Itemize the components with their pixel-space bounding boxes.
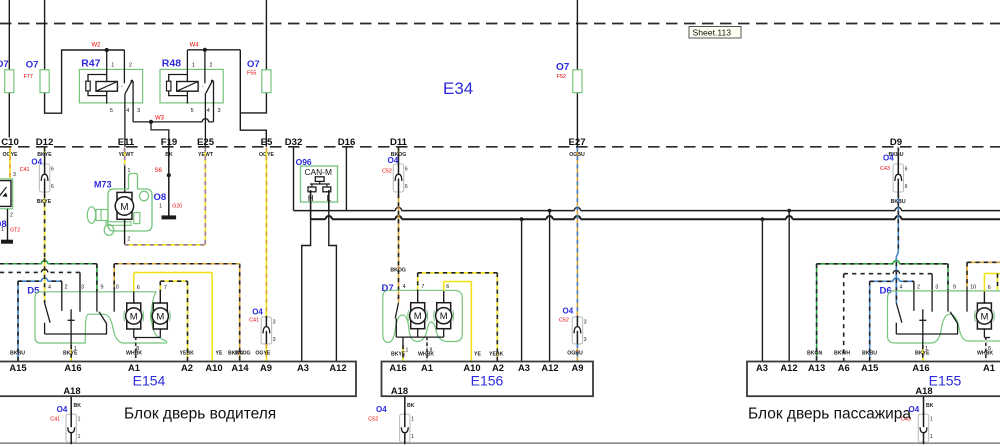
svg-text:A9: A9 — [260, 362, 272, 373]
svg-text:3: 3 — [13, 172, 16, 178]
svg-text:BKOG: BKOG — [390, 268, 406, 274]
svg-text:1: 1 — [406, 348, 409, 354]
wire motor common to E155 A1 — [983, 328, 985, 337]
svg-text:WHBK: WHBK — [126, 351, 142, 357]
svg-text:O4: O4 — [376, 405, 387, 414]
wire D16 down to CAN low bus — [345, 148, 347, 211]
svg-text:O4: O4 — [563, 307, 574, 316]
svg-text:2: 2 — [129, 63, 132, 69]
wire YEBK E156 A2 to D7 pin 7 — [496, 273, 498, 362]
svg-text:A3: A3 — [756, 362, 768, 373]
inline connector O4 C52 on D11 wire — [398, 148, 400, 154]
svg-text:BK: BK — [74, 403, 82, 409]
svg-text:E156: E156 — [471, 373, 504, 389]
wire supply through fuse F55 — [265, 0, 267, 70]
splice S6 — [167, 173, 171, 177]
svg-text:D11: D11 — [390, 137, 408, 148]
svg-text:D5: D5 — [27, 286, 40, 297]
svg-text:6: 6 — [905, 167, 908, 173]
svg-text:WHBK: WHBK — [977, 351, 993, 357]
svg-text:E11: E11 — [118, 137, 135, 148]
D7 switch bar to A16 — [396, 336, 418, 338]
ground GT2 — [2, 240, 13, 243]
svg-text:S6: S6 — [155, 168, 163, 174]
svg-text:O4: O4 — [57, 405, 68, 414]
wire M73 pin2 down — [124, 219, 126, 244]
svg-text:C10: C10 — [1, 137, 19, 148]
motor D5 pin6 window motor — [127, 303, 141, 329]
svg-text:A1: A1 — [421, 362, 433, 373]
motor M73 green housing — [108, 174, 152, 232]
svg-text:A2: A2 — [492, 362, 504, 373]
wire supply through fuse F77 to node W2 — [44, 0, 46, 70]
ground G20 — [162, 216, 176, 219]
svg-text:3: 3 — [81, 284, 84, 290]
svg-text:C52: C52 — [368, 417, 378, 423]
svg-text:BKBU: BKBU — [862, 351, 877, 357]
svg-text:7: 7 — [421, 284, 424, 290]
svg-text:O4: O4 — [252, 307, 263, 316]
svg-text:F55: F55 — [247, 71, 256, 77]
wire A18 down with inline connector O4 C52 — [404, 396, 406, 414]
svg-text:GT2: GT2 — [10, 228, 20, 234]
svg-text:F52: F52 — [557, 74, 566, 80]
wire BKGN from left edge to D5 pin 9 — [0, 263, 97, 265]
fuse O7 F55 — [262, 70, 271, 93]
wire relay R48 pin 4 to E25 with hop — [204, 94, 206, 147]
sheet bottom border — [0, 442, 1000, 444]
wire BKBU from E154 A15 to D5 pin 2 — [17, 281, 19, 361]
svg-text:A10: A10 — [463, 362, 480, 373]
svg-text:M: M — [980, 311, 988, 322]
wire BKYE D12 to D5 pin 4 with arrows — [44, 261, 46, 287]
svg-text:3: 3 — [218, 108, 221, 114]
wire YE E156 A10 to D7 pin 6 — [470, 282, 472, 362]
svg-text:YE: YE — [216, 351, 223, 357]
svg-text:1: 1 — [111, 63, 114, 69]
svg-text:CAN-M: CAN-M — [305, 167, 332, 177]
svg-text:O4: O4 — [883, 154, 894, 163]
relay R48 switch arm — [206, 81, 213, 94]
svg-text:A12: A12 — [541, 362, 558, 373]
inline connector O4 C43 on D9 wire — [897, 148, 899, 154]
svg-text:A3: A3 — [297, 362, 309, 373]
wire net W3 pin3 R47 to pin3 R48 — [133, 121, 213, 123]
node W4 junction — [203, 48, 207, 52]
svg-text:BK: BK — [407, 403, 415, 409]
svg-text:O4: O4 — [31, 158, 42, 167]
block E155 connector box — [747, 362, 1000, 397]
svg-text:BKOG: BKOG — [228, 351, 244, 357]
module O96 CAN-M — [301, 166, 338, 202]
svg-text:D6: D6 — [880, 286, 892, 297]
switch unit green outline D7 — [383, 290, 463, 342]
svg-text:1: 1 — [930, 434, 933, 440]
wire W3 branch to F19 — [151, 122, 169, 147]
svg-text:1: 1 — [411, 417, 414, 423]
svg-text:4: 4 — [900, 284, 903, 290]
svg-text:G20: G20 — [172, 203, 182, 209]
svg-text:6: 6 — [405, 184, 408, 190]
svg-text:1: 1 — [159, 203, 162, 209]
svg-text:OGYE: OGYE — [255, 351, 271, 357]
wire YE to D6 pin 6 from right — [984, 273, 1000, 275]
svg-text:C52: C52 — [382, 168, 392, 174]
svg-text:O8: O8 — [154, 192, 167, 203]
svg-text:2: 2 — [65, 284, 68, 290]
wire E155 A12 to L bus — [788, 211, 790, 362]
svg-text:A16: A16 — [912, 362, 929, 373]
svg-text:YEWT: YEWT — [119, 152, 135, 158]
relay R47 pin 1 coil wire — [106, 50, 108, 82]
svg-text:2: 2 — [917, 284, 920, 290]
svg-text:A18: A18 — [391, 385, 408, 396]
node W2 junction — [105, 48, 109, 52]
inline connector O4 C41 on E5 wire — [261, 317, 271, 344]
inline connector O4 C41 on D12 wire — [44, 148, 46, 154]
D5 switch pack contacts — [45, 303, 51, 323]
svg-text:6: 6 — [905, 184, 908, 190]
svg-text:BKYE: BKYE — [63, 351, 78, 357]
switch component at C10 (cut by edge) — [0, 179, 13, 209]
svg-text:O7: O7 — [247, 59, 260, 70]
svg-text:A18: A18 — [63, 385, 80, 396]
wire C10 OGYE down to switch — [9, 148, 11, 180]
svg-text:A15: A15 — [861, 362, 878, 373]
switch unit green outline driver — [35, 292, 167, 343]
svg-text:D9: D9 — [890, 137, 902, 148]
svg-text:D32: D32 — [285, 137, 303, 148]
wire BKBU E155 A15 to D6 pin 2 — [869, 281, 871, 361]
relay R47 green enclosure — [79, 69, 142, 103]
svg-text:Блок дверь пассажира: Блок дверь пассажира — [748, 406, 911, 423]
wire supply to C10 — [8, 0, 10, 70]
svg-text:1: 1 — [192, 63, 195, 69]
svg-text:BKWH: BKWH — [834, 351, 850, 357]
svg-text:C41: C41 — [249, 318, 259, 324]
svg-text:W4: W4 — [190, 42, 200, 48]
CAN upper bus line (L) — [294, 210, 1000, 212]
wire YEBK E154 A2 to D5 pin 7 — [187, 281, 189, 361]
svg-text:Sheet.113: Sheet.113 — [693, 28, 732, 38]
svg-text:A10: A10 — [205, 362, 222, 373]
wire E156 A3 to H bus — [521, 219, 523, 361]
svg-text:W3: W3 — [155, 116, 165, 122]
wire YEWT E11 to motor M73 — [124, 148, 126, 167]
svg-text:BKGN: BKGN — [807, 351, 823, 357]
svg-text:10: 10 — [970, 284, 976, 290]
svg-text:Блок дверь водителя: Блок дверь водителя — [124, 406, 276, 423]
D5 switch 9/10 contacts — [96, 291, 98, 312]
svg-text:1: 1 — [930, 417, 933, 423]
wire BKOG D11 down to D7 pin 4 — [395, 209, 401, 212]
wire D32 down to CAN low bus — [293, 148, 295, 211]
svg-text:A18: A18 — [915, 385, 932, 396]
svg-text:D12: D12 — [36, 137, 54, 148]
svg-text:O7: O7 — [556, 62, 570, 73]
wire CAN L pin down — [328, 190, 330, 211]
svg-text:C43: C43 — [880, 166, 890, 172]
wire YEBK stub right edge — [997, 274, 999, 291]
svg-text:OGBU: OGBU — [567, 351, 583, 357]
CAN lower bus line (H) with hops — [311, 218, 326, 220]
svg-text:6: 6 — [988, 285, 991, 291]
svg-text:9: 9 — [101, 284, 104, 290]
connector row dashed line — [0, 146, 1000, 148]
wire to ground GT2 — [7, 209, 9, 240]
wire E156 A12 to L bus — [549, 211, 551, 362]
svg-text:3: 3 — [137, 108, 140, 114]
svg-text:W2: W2 — [92, 43, 102, 49]
svg-text:A1: A1 — [128, 362, 140, 373]
D6 switch 9/10 contacts — [947, 291, 949, 312]
Sheet.113 reference box — [689, 27, 741, 39]
wire A18 down with inline connector O4 C43 — [923, 396, 925, 414]
svg-text:2: 2 — [10, 213, 13, 219]
svg-text:M73: M73 — [94, 180, 112, 190]
motor D6 pin6 window motor — [977, 303, 991, 329]
wire CAN H pin down — [310, 190, 312, 219]
svg-text:7: 7 — [164, 285, 167, 291]
svg-text:C41: C41 — [20, 167, 30, 173]
wire OGBU E27 down with bus hops — [574, 209, 580, 212]
svg-text:A2: A2 — [181, 362, 193, 373]
svg-text:2: 2 — [209, 63, 212, 69]
svg-text:A9: A9 — [572, 362, 584, 373]
wire BKWH from left edge to D5 pin 3 — [0, 271, 80, 273]
relay R47 pin 3 wire — [132, 81, 134, 122]
relay R48 pin 3 wire — [213, 81, 215, 122]
svg-text:M: M — [414, 311, 422, 322]
svg-text:3: 3 — [273, 319, 276, 325]
svg-text:M: M — [156, 311, 164, 322]
D6 switch pack contacts — [896, 303, 902, 323]
relay R48 green enclosure — [160, 69, 223, 103]
wire E155 A3 to H bus — [761, 219, 763, 361]
D5 switch centre contact — [70, 309, 72, 334]
svg-text:3: 3 — [584, 337, 587, 343]
svg-text:5: 5 — [110, 108, 113, 114]
svg-text:3: 3 — [935, 284, 938, 290]
wire BKOG from E154 A14 to D5 pin 10 — [239, 264, 241, 362]
svg-text:A3: A3 — [518, 362, 530, 373]
svg-text:1: 1 — [78, 417, 81, 423]
D7 switch contact — [395, 303, 398, 319]
svg-text:C41: C41 — [50, 417, 60, 423]
wire BKGN E155 A13 to D6 pin 9 — [816, 264, 818, 362]
svg-text:YEBK: YEBK — [489, 352, 504, 358]
svg-text:A16: A16 — [389, 362, 406, 373]
relay R47 switch arm — [125, 81, 132, 94]
D5 switch common bar — [45, 333, 107, 335]
svg-text:O7: O7 — [0, 59, 9, 70]
wire relay R47 pin 4 to E11 — [124, 94, 126, 147]
svg-text:R48: R48 — [162, 57, 181, 69]
svg-text:R47: R47 — [81, 57, 100, 69]
motor D7 pin6 — [437, 303, 451, 329]
svg-text:6: 6 — [446, 284, 449, 290]
motor D7 pin7 — [411, 303, 425, 329]
wire BKWH E155 A6 to D6 pin 3 — [843, 274, 845, 362]
svg-text:5: 5 — [191, 108, 194, 114]
wire motors common to E156 A1 — [417, 328, 419, 337]
svg-text:BKBU: BKBU — [10, 351, 25, 357]
svg-text:BK: BK — [926, 403, 934, 409]
relay R47 coil — [96, 82, 117, 92]
node W3 junction — [149, 120, 153, 124]
svg-text:6: 6 — [51, 184, 54, 190]
wire node W4 horizontal — [187, 49, 240, 51]
D6 switch centre contact — [922, 309, 924, 334]
svg-text:E154: E154 — [133, 373, 166, 389]
svg-text:3: 3 — [273, 337, 276, 343]
svg-text:4: 4 — [48, 284, 51, 290]
svg-text:YEBK: YEBK — [180, 351, 195, 357]
fuse O7 F77 — [40, 70, 49, 93]
wire BKYE D6 pin1 to E155 A16 — [922, 334, 924, 345]
wire supply through fuse F52 to E27 — [576, 0, 578, 70]
motor D5 pin7 window motor — [153, 303, 167, 329]
relay R48 coil — [177, 82, 198, 92]
relay R48 pin 1 coil wire — [186, 50, 188, 82]
svg-text:C52: C52 — [559, 318, 569, 324]
svg-text:4: 4 — [126, 108, 129, 114]
fuse O7 F52 — [573, 70, 582, 93]
svg-text:A15: A15 — [9, 362, 26, 373]
svg-text:A12: A12 — [780, 362, 797, 373]
inline connector O4 C52 on E27 wire — [572, 317, 582, 344]
svg-text:1: 1 — [78, 434, 81, 440]
svg-text:A12: A12 — [329, 362, 346, 373]
svg-text:M: M — [440, 311, 448, 322]
D6 switch common bar — [896, 333, 958, 335]
svg-text:E34: E34 — [443, 79, 473, 98]
switch unit green outline D6 — [888, 291, 1000, 343]
svg-text:A13: A13 — [808, 362, 825, 373]
svg-text:BKYE: BKYE — [37, 199, 52, 205]
svg-text:6: 6 — [51, 167, 54, 173]
relay R47 coil resistor branch — [88, 75, 107, 82]
relay R47 pin 2 wire and fixed contact — [123, 50, 125, 83]
svg-text:A16: A16 — [64, 362, 81, 373]
wire W4 down joins F55, to E5 — [240, 50, 266, 147]
wire YEWT M73 to E25 — [125, 244, 206, 246]
svg-text:4: 4 — [403, 284, 406, 290]
wire A18 down with inline connector O4 C41 — [70, 396, 72, 414]
svg-text:D16: D16 — [338, 137, 356, 148]
wire CAN pair to E154 A12 — [329, 211, 337, 362]
block E154 connector box — [0, 362, 356, 397]
svg-text:BKYE: BKYE — [915, 351, 930, 357]
svg-text:O7: O7 — [26, 60, 39, 71]
svg-text:O8: O8 — [0, 219, 7, 230]
svg-text:M: M — [130, 311, 138, 322]
svg-text:O4: O4 — [388, 156, 399, 165]
svg-text:F77: F77 — [24, 74, 33, 80]
svg-text:A6: A6 — [838, 362, 850, 373]
wire BKYE D5 pin1 to E154 A16 — [70, 334, 72, 345]
block E156 connector box — [382, 362, 594, 397]
relay R48 pin 2 wire and fixed contact — [204, 50, 206, 83]
svg-text:O96: O96 — [296, 157, 312, 167]
svg-text:6: 6 — [137, 285, 140, 291]
wire CAN pair to E154 A3 — [302, 219, 311, 361]
relay R47 mechanical link — [117, 85, 123, 87]
svg-text:YE: YE — [474, 352, 481, 358]
svg-text:1: 1 — [411, 434, 414, 440]
sheet boundary dashed line top — [0, 23, 1000, 25]
relay R48 coil resistor branch — [169, 75, 188, 82]
svg-text:A1: A1 — [983, 362, 995, 373]
svg-text:3: 3 — [584, 319, 587, 325]
svg-text:6: 6 — [405, 167, 408, 173]
svg-text:E155: E155 — [929, 373, 962, 389]
wire BKBU D9 down to D6 pin 4 with hops — [895, 209, 901, 212]
svg-text:2: 2 — [127, 237, 130, 243]
wire motors common to E154 A1 (WHBK) — [133, 328, 135, 337]
svg-text:9: 9 — [953, 284, 956, 290]
svg-text:4: 4 — [207, 108, 210, 114]
svg-text:BKYE: BKYE — [391, 352, 406, 358]
wire YE E154 A10 to D5 pin 6 — [211, 273, 213, 362]
wire BKOG to D6 pin 10 from right — [967, 261, 1000, 263]
fuse O7 (left, cut) — [5, 70, 14, 93]
svg-text:M: M — [120, 202, 128, 213]
wire BK F19 to ground — [168, 148, 170, 216]
svg-text:A14: A14 — [231, 362, 249, 373]
relay R48 mechanical link — [198, 85, 203, 87]
wire OGYE E5 down to A9 — [265, 148, 267, 317]
svg-text:WHBK: WHBK — [418, 352, 434, 358]
